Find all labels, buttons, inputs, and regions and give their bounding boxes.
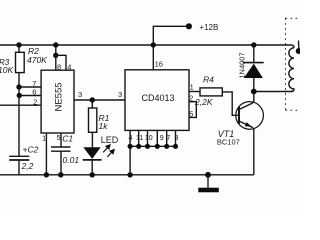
node rail C1 (58, 172, 63, 177)
wire NE555 pin2 input line (0, 104, 41, 106)
wire top +12V rail (0, 44, 291, 46)
resistor R1 (89, 108, 97, 132)
node pin6 (17, 93, 22, 98)
svg-text:BC107: BC107 (217, 137, 240, 146)
svg-text:470K: 470K (27, 55, 47, 65)
node pin7 (16, 84, 21, 89)
node rail diode (251, 42, 256, 47)
wire NE555 pin7 (19, 86, 41, 88)
svg-text:4: 4 (129, 135, 133, 142)
relay dashed enclosure (286, 18, 301, 110)
node relay contact (296, 48, 302, 54)
wire CD4013 pin2-pin5 feedback loop (189, 102, 196, 118)
svg-text:CD4013: CD4013 (142, 93, 175, 103)
svg-text:3: 3 (78, 90, 82, 99)
resistor R4 (200, 88, 222, 96)
wire NE555 pin4 jumper (56, 55, 66, 70)
wire CD4013 bottom pin stubs (130, 130, 175, 146)
svg-text:6: 6 (32, 87, 36, 96)
svg-text:16: 16 (155, 60, 163, 69)
wire R2/C2 vertical branch (18, 45, 20, 52)
svg-text:NE555: NE555 (53, 82, 64, 111)
node rail C555 pin1 (44, 172, 49, 177)
wire collector up to diode node (253, 92, 255, 103)
diode VD1 1N4007 (243, 45, 264, 92)
node pin4 jumper (53, 53, 58, 58)
svg-text:4: 4 (67, 62, 71, 71)
svg-text:8: 8 (57, 62, 61, 71)
svg-text:7: 7 (167, 135, 171, 142)
svg-text:5: 5 (189, 110, 193, 119)
node rail LED (90, 172, 95, 177)
svg-text:9: 9 (160, 135, 164, 142)
relay contact stub (clipped at edge) (298, 41, 300, 50)
node rail bus drop (127, 172, 132, 177)
svg-text:3: 3 (118, 90, 122, 99)
wire R1 top (91, 100, 93, 108)
svg-text:+C2: +C2 (23, 144, 39, 154)
inductor K1 relay coil (289, 45, 294, 92)
node bus pins (128, 144, 179, 149)
transistor Q1 VT1 BC107 (236, 102, 264, 130)
svg-text:2,2: 2,2 (21, 161, 34, 171)
svg-text:8: 8 (175, 135, 179, 142)
svg-text:5: 5 (57, 133, 61, 142)
wire emitter down to ground rail (253, 128, 255, 175)
svg-text:R4: R4 (203, 74, 214, 84)
svg-text:1: 1 (42, 133, 46, 142)
svg-text:1: 1 (190, 82, 194, 91)
svg-text:2: 2 (189, 94, 193, 103)
wire CD4013 pin1 to R4 (189, 91, 200, 93)
resistor R2 (16, 52, 25, 72)
wire R2 bottom to C2 (18, 73, 20, 157)
wire NE555 pin8 from rail (55, 45, 57, 70)
wire R4 to base (222, 92, 239, 115)
node rail ground (205, 172, 211, 178)
wire +12V tap (153, 26, 189, 45)
op-amp U1 NE555 body (41, 70, 74, 133)
wire R1 to LED (91, 132, 93, 147)
svg-text:11: 11 (136, 135, 143, 142)
LED light arrows (103, 144, 115, 157)
svg-text:1N4007: 1N4007 (237, 52, 246, 78)
svg-text:1k: 1k (99, 121, 109, 131)
node rail R2 (16, 42, 21, 47)
wire bottom ground rail (0, 174, 254, 176)
LED D1 (83, 147, 102, 175)
svg-text:2: 2 (33, 97, 37, 106)
wire NE555 pin5 (60, 133, 62, 147)
wire NE555 pin3 to CD4013 pin3 (74, 99, 125, 101)
node pin3 junction (90, 97, 95, 102)
svg-text:0.01: 0.01 (63, 155, 80, 165)
capacitor C2 (9, 156, 29, 175)
svg-text:10K: 10K (0, 65, 13, 75)
svg-text:LED: LED (101, 135, 119, 145)
capacitor C1 (51, 147, 71, 175)
node rail pin8 (53, 42, 58, 47)
svg-text:2,2K: 2,2K (194, 97, 213, 107)
ground symbol (198, 175, 219, 193)
node rail pin16 (151, 42, 156, 47)
wire NE555 pin6 (19, 95, 41, 97)
wire bus drop to ground rail (129, 146, 131, 175)
wire NE555 pin1 to ground (45, 133, 47, 175)
flip-flop U2 CD4013 body (125, 70, 189, 131)
wire CD4013 ground bus (130, 145, 175, 147)
svg-text:10: 10 (145, 135, 153, 142)
svg-text:C1: C1 (62, 134, 73, 144)
wire CD4013 pin16 from rail (152, 45, 154, 70)
node +12V terminal (186, 23, 192, 29)
wire relay coil bottom to diode node (254, 91, 292, 92)
node diode bottom (251, 89, 257, 95)
svg-text:+12В: +12В (199, 23, 218, 32)
